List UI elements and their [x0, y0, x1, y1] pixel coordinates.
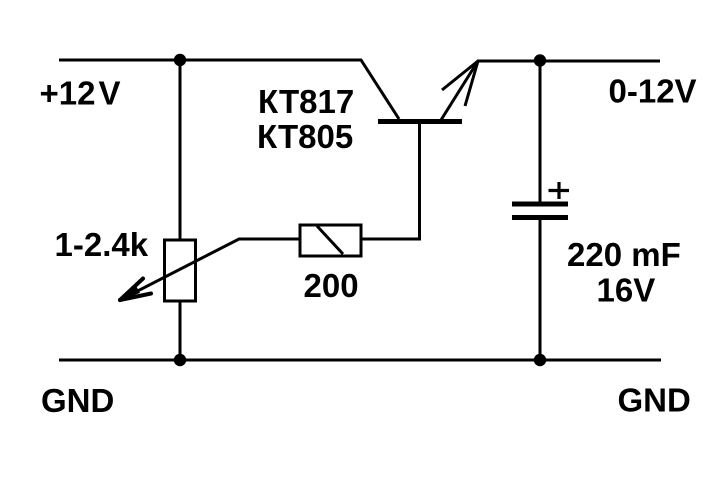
- svg-text:220 mF: 220 mF: [567, 236, 681, 273]
- svg-text:GND: GND: [41, 382, 114, 419]
- svg-text:16V: 16V: [597, 272, 656, 309]
- svg-text:КТ817: КТ817: [258, 83, 354, 120]
- svg-text:200: 200: [304, 267, 359, 304]
- svg-text:КТ805: КТ805: [257, 118, 353, 155]
- svg-text:0-12V: 0-12V: [609, 73, 697, 110]
- svg-text:GND: GND: [618, 382, 691, 419]
- svg-text:V: V: [99, 75, 121, 112]
- svg-text:+12: +12: [40, 75, 96, 112]
- svg-text:1-2.4k: 1-2.4k: [55, 226, 149, 263]
